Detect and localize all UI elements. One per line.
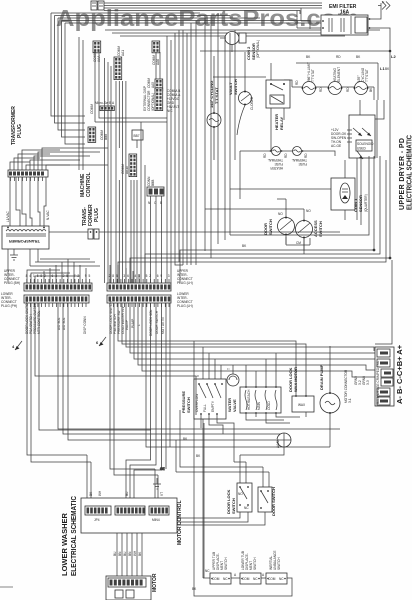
wire motor control to motor	[117, 533, 142, 578]
svg-text:VT: VT	[160, 492, 164, 496]
svg-text:PLUG (PH): PLUG (PH)	[1, 304, 17, 308]
svg-text:8: 8	[40, 274, 42, 278]
thermal fuse heater	[268, 147, 283, 171]
svg-text:RD: RD	[319, 87, 323, 92]
wire long right verticals lower	[194, 341, 221, 592]
thermostat 155 cycling	[354, 82, 369, 95]
upper tub displacement switch label	[212, 552, 228, 570]
svg-text:SWITCH: SWITCH	[231, 498, 236, 514]
svg-text:(OPTIONAL): (OPTIONAL)	[151, 93, 155, 111]
svg-text:3-1: 3-1	[348, 398, 352, 403]
svg-text:SWITCH: SWITCH	[186, 397, 191, 413]
wire bottom switch row	[194, 578, 292, 596]
ground symbol top right	[378, 2, 390, 10]
svg-text:6: 6	[157, 274, 159, 278]
node L1	[296, 63, 385, 100]
water valve inlet symbol	[227, 365, 239, 386]
coin 1 sensor (quarter)	[230, 160, 368, 220]
motor connector wire labels	[354, 376, 370, 385]
lower inter-connect plug (LH) label	[177, 292, 193, 308]
heater relay K1	[266, 63, 290, 151]
svg-text:8: 8	[138, 274, 140, 278]
svg-text:5: 5	[89, 274, 91, 278]
svg-text:N/C: N/C	[167, 109, 173, 113]
svg-text:AA6: AA6	[156, 59, 160, 65]
access switch	[296, 209, 324, 251]
svg-text:2: 2	[109, 274, 111, 278]
wire name labels under left strip	[25, 301, 87, 334]
inertial unbalance switch label	[269, 551, 281, 571]
wire lower horizontals	[155, 376, 269, 498]
svg-text:6: 6	[127, 274, 129, 278]
svg-text:BU: BU	[113, 551, 117, 556]
svg-text:(OPTIONAL): (OPTIONAL)	[256, 40, 260, 58]
svg-text:PLUG (BH): PLUG (BH)	[4, 281, 20, 285]
wire water valve feeds	[246, 353, 300, 423]
upper tub displacement switch S7	[210, 573, 231, 584]
svg-text:JP4: JP4	[94, 518, 100, 522]
svg-text:HOT/BLEACH: HOT/BLEACH	[247, 389, 251, 410]
svg-text:RD: RD	[304, 153, 308, 158]
svg-text:PLUG: PLUG	[94, 208, 100, 222]
lower tub displacement switch label	[241, 551, 257, 570]
svg-text:VALVE: VALVE	[232, 399, 237, 412]
svg-text:MAIN: MAIN	[257, 401, 261, 410]
svg-text:HEATER: HEATER	[270, 166, 283, 170]
svg-text:A- B- C-C+B+ A+: A- B- C-C+B+ A+	[395, 344, 404, 404]
svg-text:THERMAL: THERMAL	[268, 158, 283, 162]
svg-text:SWITCH: SWITCH	[233, 79, 238, 95]
pressure switch PS1	[194, 379, 226, 419]
wire transformer feed lines	[10, 177, 46, 226]
vault switch	[228, 52, 254, 135]
svg-text:NC: NC	[244, 506, 249, 510]
svg-text:MOTOR CONTROL: MOTOR CONTROL	[177, 500, 183, 545]
svg-text:WH: WH	[133, 550, 137, 556]
pin stubs below machine control strip	[11, 177, 43, 181]
svg-text:8: 8	[112, 274, 114, 278]
svg-text:BU: BU	[123, 551, 127, 556]
svg-text:2: 2	[44, 274, 46, 278]
wire motor connector feed	[375, 260, 392, 344]
svg-text:3-3: 3-3	[366, 380, 370, 385]
svg-text:WH: WH	[98, 490, 102, 496]
svg-text:BU: BU	[125, 491, 129, 496]
bundle arrow 4 (left)	[12, 341, 22, 350]
svg-text:ELECTRICAL SCHEMATIC: ELECTRICAL SCHEMATIC	[69, 496, 78, 576]
svg-text:DOOR SWITCH: DOOR SWITCH	[155, 310, 159, 334]
svg-text:SWITCH: SWITCH	[277, 557, 281, 570]
svg-text:5: 5	[66, 274, 68, 278]
scan artifact bottom-left	[0, 586, 13, 588]
svg-text:COM: COM	[268, 577, 276, 581]
pin ticks above right upper strip	[110, 279, 169, 283]
svg-text:CLOSED: CLOSED	[250, 96, 254, 110]
svg-text:ELEMENT: ELEMENT	[337, 67, 341, 82]
svg-text:NO: NO	[306, 209, 311, 213]
wire right group staircase	[110, 303, 375, 498]
ground under transformer	[10, 249, 18, 260]
svg-text:BB7: BB7	[134, 134, 140, 138]
wire mid collector bus above strips	[27, 259, 139, 283]
thermostat 145 cycling	[207, 56, 221, 160]
svg-text:PLUG (LH): PLUG (LH)	[177, 281, 193, 285]
top-left corner connector J-TOP	[91, 1, 104, 10]
svg-text:WAX: WAX	[298, 403, 306, 407]
wire transformer to strip	[8, 249, 38, 283]
svg-text:COM: COM	[242, 577, 250, 581]
wire second bus under watermark	[51, 13, 380, 36]
svg-text:NC: NC	[279, 577, 284, 581]
svg-text:5: 5	[37, 274, 39, 278]
ground at motor control	[153, 467, 165, 489]
transformer T1	[2, 226, 49, 249]
svg-text:NC: NC	[253, 577, 258, 581]
svg-text:LOWER WASHER: LOWER WASHER	[60, 513, 69, 576]
pin numbers above right upper strip	[109, 274, 170, 278]
door switch (dryer)	[263, 199, 295, 244]
washer motor circle (AAAA)	[240, 433, 291, 455]
comm AA5 block	[147, 78, 163, 91]
motor wire labels	[113, 550, 142, 556]
svg-text:AC-GE: AC-GE	[331, 144, 341, 148]
svg-text:A/D SOL: A/D SOL	[62, 317, 66, 330]
connector BBB	[147, 176, 164, 283]
motor control connector MIN4	[149, 506, 169, 522]
svg-text:AAAA: AAAA	[276, 439, 280, 448]
svg-text:2: 2	[63, 274, 65, 278]
svg-text:ELECTRICAL SCHEMATIC: ELECTRICAL SCHEMATIC	[407, 135, 412, 210]
svg-text:NO: NO	[278, 212, 283, 216]
svg-text:5: 5	[116, 274, 118, 278]
wire relay feed	[213, 76, 266, 78]
lower inter-connect plug (PH) label	[1, 292, 17, 308]
comm BB block	[88, 127, 108, 142]
pin ticks above left upper strip	[27, 279, 90, 283]
lower inter-connect plug left strip	[24, 295, 89, 303]
motor control connector JP4	[85, 506, 111, 522]
svg-text:L1/VAC: L1/VAC	[6, 211, 10, 222]
wire top bus L1/L2 nested lines	[104, 3, 322, 14]
wire right drop from heating row	[284, 80, 374, 100]
connector BB7	[132, 130, 143, 148]
svg-text:RELAY: RELAY	[279, 116, 284, 130]
svg-text:N-VAC: N-VAC	[46, 210, 50, 220]
svg-text:T'T'STAT: T'T'STAT	[311, 69, 315, 82]
svg-text:FUSE: FUSE	[298, 162, 307, 166]
svg-text:AA5: AA5	[151, 82, 155, 88]
heating element HE1	[328, 82, 343, 95]
pin stubs below left lower strip	[27, 303, 86, 307]
svg-text:COMM: COMM	[90, 104, 94, 114]
svg-text:NO: NO	[238, 492, 243, 496]
svg-text:2: 2	[77, 274, 79, 278]
svg-text:COM: COM	[212, 577, 220, 581]
svg-text:NC: NC	[223, 577, 228, 581]
svg-text:5: 5	[146, 274, 148, 278]
coin 2 sensor (optional)	[220, 32, 260, 61]
svg-text:L: L	[137, 324, 141, 326]
comm AA6 block	[152, 41, 160, 65]
EMI filter box	[297, 1, 390, 52]
svg-text:GE: GE	[160, 467, 165, 471]
svg-text:7: 7	[74, 274, 76, 278]
wire name labels under right strip	[109, 301, 165, 336]
pin stubs below right lower strip	[110, 303, 169, 307]
door lock wax motor block	[292, 395, 314, 417]
svg-text:CM: CM	[296, 241, 301, 245]
svg-text:(QUARTER): (QUARTER)	[364, 194, 368, 212]
water valve solenoid block	[240, 386, 281, 414]
svg-text:9: 9	[85, 274, 87, 278]
svg-text:SWITCH: SWITCH	[253, 557, 257, 570]
upper inter-connect plug left strip	[24, 283, 92, 291]
svg-text:AA1: AA1	[121, 50, 125, 56]
comm AAA block	[93, 41, 101, 62]
wire thermal row	[240, 151, 335, 199]
svg-text:T: T	[227, 368, 231, 370]
upper inter-connect plug right strip	[107, 283, 171, 291]
svg-text:BN: BN	[128, 551, 132, 556]
svg-text:BN: BN	[118, 551, 122, 556]
svg-text:MIN4: MIN4	[152, 518, 160, 522]
svg-text:WAX MOTOR: WAX MOTOR	[293, 367, 298, 392]
svg-text:DOOR LOCK SOL: DOOR LOCK SOL	[149, 309, 153, 336]
comm AA1 block	[114, 46, 125, 80]
svg-text:FULL: FULL	[203, 404, 207, 412]
svg-text:2: 2	[149, 274, 151, 278]
svg-text:Micro-Sw B A: Micro-Sw B A	[95, 101, 115, 105]
svg-text:CONTROL: CONTROL	[86, 172, 92, 197]
thermal fuse	[292, 147, 307, 167]
control board block with solenoid	[331, 100, 384, 225]
svg-text:COLD: COLD	[267, 400, 271, 410]
svg-text:3: 3	[168, 274, 170, 278]
wire right mid horizontals	[118, 51, 391, 283]
svg-text:TRANSFORMER: TRANSFORMER	[9, 239, 40, 244]
svg-text:BALL WEDGE CRIMPED TML: BALL WEDGE CRIMPED TML	[376, 360, 380, 404]
inertial unbalance switch S9	[266, 573, 287, 584]
svg-text:BBB: BBB	[151, 180, 155, 186]
wire central vertical bundle	[95, 13, 235, 283]
svg-text:NC: NC	[205, 569, 210, 573]
svg-text:RD: RD	[336, 55, 341, 59]
svg-text:SWITCH: SWITCH	[224, 557, 228, 570]
svg-text:EMPTY: EMPTY	[211, 400, 215, 412]
drain pump M2	[320, 346, 340, 447]
svg-text:RD: RD	[346, 87, 350, 92]
svg-text:6: 6	[52, 274, 54, 278]
display comm board block	[90, 101, 115, 114]
misc wire labels	[89, 55, 390, 591]
svg-text:RD: RD	[284, 153, 288, 158]
machine control connector strip	[8, 170, 48, 177]
svg-text:FUSE: FUSE	[274, 162, 283, 166]
svg-text:4: 4	[29, 274, 31, 278]
svg-text:SWITCH: SWITCH	[318, 221, 323, 237]
lower inter-connect plug right strip	[107, 295, 171, 303]
wire pressure switch bottom pins	[201, 419, 234, 578]
motor connector block	[375, 347, 394, 406]
thermostat 266 HI-LIMIT	[302, 82, 317, 95]
bundle arrow 6 (mid)	[96, 337, 106, 346]
svg-text:DRAIN PUMP: DRAIN PUMP	[319, 364, 324, 390]
svg-text:PUMP: PUMP	[131, 319, 135, 328]
svg-text:3: 3	[55, 274, 57, 278]
svg-text:PLUG (LH): PLUG (LH)	[177, 304, 193, 308]
svg-text:8: 8	[26, 274, 28, 278]
svg-text:RD: RD	[263, 153, 267, 158]
motor control connector JP2	[115, 506, 145, 515]
svg-text:SENSOR: SENSOR	[358, 195, 363, 212]
svg-text:L2: L2	[391, 54, 396, 59]
svg-text:USED: USED	[357, 147, 367, 151]
svg-text:T'T'STAT: T'T'STAT	[365, 69, 369, 82]
svg-text:SOLENOID: SOLENOID	[357, 142, 374, 146]
svg-text:UPPER DRYER - PD: UPPER DRYER - PD	[399, 138, 406, 210]
external display connector (optional)	[143, 86, 181, 113]
svg-text:3: 3	[123, 274, 125, 278]
svg-text:9: 9	[160, 274, 162, 278]
upper inter-connect plug (LH) label	[177, 269, 193, 285]
motor M1	[106, 573, 158, 600]
svg-text:SWITCH: SWITCH	[268, 219, 273, 235]
svg-text:MOTOR: MOTOR	[152, 573, 158, 592]
door switch (washer) S6	[177, 487, 272, 525]
svg-text:A/D SOL: A/D SOL	[57, 317, 61, 330]
svg-text:DISP CONN: DISP CONN	[83, 316, 87, 334]
connector BB pair	[49, 229, 340, 239]
svg-text:PLUG: PLUG	[17, 124, 23, 138]
svg-text:RD: RD	[295, 80, 299, 85]
svg-text:4: 4	[135, 274, 137, 278]
door lock switch S5	[177, 483, 252, 522]
svg-text:OVERFLOW: OVERFLOW	[195, 394, 199, 412]
svg-text:MOTOR CONNECTOR: MOTOR CONNECTOR	[344, 369, 348, 403]
svg-text:WAX/P: WAX/P	[125, 320, 129, 330]
comm AA10 block	[121, 154, 137, 177]
motor control board	[81, 498, 183, 545]
pin numbers above left upper strip	[26, 274, 91, 278]
wire machine control risers	[10, 148, 108, 170]
node L2	[200, 50, 396, 59]
lower tub displacement switch S8	[240, 573, 261, 584]
wire heating row	[292, 86, 374, 88]
upper inter-connect plug (BH) label	[4, 269, 20, 285]
svg-text:1: 1	[33, 274, 35, 278]
wire left group descent	[27, 303, 340, 498]
wire left drop bundle from bus	[51, 13, 85, 170]
